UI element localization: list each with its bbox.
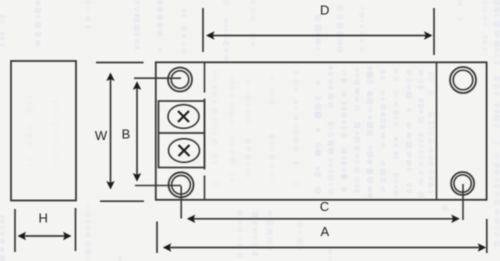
svg-text:B: B <box>122 127 131 142</box>
svg-text:W: W <box>95 128 108 143</box>
svg-text:C: C <box>320 199 329 214</box>
svg-text:D: D <box>320 2 329 17</box>
svg-text:H: H <box>39 211 48 226</box>
svg-text:A: A <box>320 224 329 239</box>
